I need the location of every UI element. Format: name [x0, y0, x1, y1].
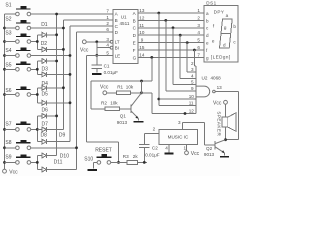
svg-text:a: a [206, 11, 209, 16]
diode D9 [37, 133, 70, 145]
svg-text:U2: U2 [202, 76, 208, 81]
svg-text:[LEDgn]: [LEDgn] [211, 55, 231, 60]
ground (Q1) [134, 121, 144, 123]
svg-text:4: 4 [106, 43, 109, 48]
switch S10 RESET [84, 148, 118, 169]
diode D8 [37, 127, 63, 139]
wire segment c row [138, 26, 204, 29]
svg-text:B: B [133, 18, 136, 23]
switch S6 [5, 87, 38, 97]
svg-text:S10: S10 [84, 156, 93, 162]
wire diode feed vertical [36, 61, 39, 74]
svg-text:C1: C1 [104, 64, 110, 69]
wire pin2 MUSIC IC to C2 [144, 127, 159, 145]
svg-text:3: 3 [106, 37, 109, 42]
diode D3 [37, 59, 56, 73]
junction left bus row S2 [3, 27, 6, 30]
svg-text:1: 1 [184, 146, 187, 151]
wire bus bit1 (pin1 B) [62, 20, 113, 129]
wire bus bit3 (pin6 D) [75, 32, 113, 169]
svg-text:Vcc: Vcc [80, 47, 89, 53]
junction left bus row S4 [3, 54, 6, 57]
svg-text:S9: S9 [5, 155, 11, 161]
svg-text:B: B [115, 18, 118, 23]
svg-text:4: 4 [191, 73, 194, 78]
svg-text:10k: 10k [126, 85, 134, 90]
switch S5 [5, 62, 38, 72]
svg-text:14: 14 [139, 52, 145, 57]
diode D7 [37, 113, 56, 127]
svg-text:RESET: RESET [95, 148, 112, 154]
svg-text:2: 2 [197, 15, 200, 20]
svg-text:e: e [206, 41, 209, 46]
diode D2 [37, 41, 63, 52]
diode D5 [37, 85, 63, 97]
wire pin3 LT [86, 40, 110, 43]
wire Vcc to speaker [225, 104, 227, 117]
svg-text:U1: U1 [121, 15, 127, 20]
svg-text:LT: LT [115, 40, 120, 45]
wire bus bit0 (pin7 A) [55, 13, 58, 156]
svg-text:G: G [133, 55, 137, 60]
svg-text:g: g [206, 55, 209, 60]
resistor R3 2k [119, 154, 148, 164]
svg-text:Vcc: Vcc [100, 85, 109, 91]
wire left Vcc bus [4, 14, 6, 169]
svg-text:9013: 9013 [204, 152, 215, 157]
svg-text:0.01μF: 0.01μF [145, 153, 160, 158]
power terminal Vcc (speaker) [213, 100, 227, 106]
wire diode feed vertical [36, 116, 39, 142]
svg-text:R2: R2 [101, 101, 107, 106]
svg-text:9: 9 [191, 86, 194, 91]
svg-text:SPEAKER: SPEAKER [217, 111, 222, 136]
svg-text:d: d [223, 42, 226, 47]
svg-text:2: 2 [191, 61, 194, 66]
svg-text:R3: R3 [123, 154, 129, 159]
svg-text:Vcc: Vcc [9, 170, 18, 176]
wire bus bit2 (pin2 C) [69, 26, 113, 142]
svg-text:D2: D2 [41, 41, 48, 47]
svg-text:D9: D9 [59, 133, 66, 139]
svg-text:S3: S3 [5, 30, 11, 36]
wire 4511 pin14 to R2 [91, 57, 152, 108]
wire U2 input ladder [195, 66, 197, 114]
svg-text:Q2: Q2 [206, 146, 213, 151]
svg-text:D8: D8 [41, 133, 48, 139]
svg-text:C2: C2 [152, 145, 158, 150]
power terminal Vcc bottom-left [3, 169, 19, 175]
wire segment g row [138, 56, 204, 59]
svg-text:D10: D10 [60, 153, 69, 159]
switch S2 [5, 16, 64, 30]
ground (Q2) [220, 156, 229, 158]
svg-text:S7: S7 [5, 121, 11, 127]
transistor Q2 9013 [204, 140, 226, 157]
svg-text:11: 11 [139, 23, 144, 28]
diode D1 [37, 22, 56, 38]
wire segment a to U2 [157, 13, 196, 106]
svg-text:DS1: DS1 [206, 1, 216, 6]
svg-text:11: 11 [189, 101, 194, 106]
svg-text:2k: 2k [133, 154, 139, 159]
svg-text:D3: D3 [42, 66, 49, 72]
switch S4 [5, 48, 71, 58]
pin bubble LT [110, 40, 113, 43]
resistor R2 10k [91, 101, 130, 111]
svg-text:7: 7 [197, 52, 200, 57]
diode D10 [37, 153, 69, 159]
speaker LS [217, 111, 237, 136]
svg-text:Vcc: Vcc [191, 151, 200, 157]
switch S3 [5, 30, 38, 43]
svg-text:4: 4 [165, 146, 168, 151]
svg-text:6: 6 [197, 45, 200, 50]
wire segment d to U2 [180, 35, 196, 78]
switch S7 [5, 121, 42, 131]
wire segment f to U2 [194, 50, 196, 66]
ground (C1) [92, 73, 102, 75]
svg-text:R1: R1 [117, 85, 123, 90]
svg-text:13: 13 [139, 8, 145, 13]
svg-text:e: e [212, 39, 215, 44]
display DS1 7-segment [204, 6, 238, 62]
power terminal Vcc (4511 LT/BI) [80, 40, 89, 53]
svg-text:b: b [233, 24, 236, 29]
svg-text:S6: S6 [5, 88, 11, 94]
svg-text:3: 3 [191, 67, 194, 72]
svg-text:D11: D11 [54, 160, 63, 166]
svg-text:S2: S2 [5, 16, 11, 22]
capacitor C2 0.01uF [139, 145, 160, 163]
power terminal Vcc (MUSIC IC pin1) [184, 144, 200, 157]
wire speaker to Q2 [224, 127, 227, 141]
resistor R1 10k [107, 85, 143, 95]
wire segment e row [138, 41, 204, 44]
power terminal Vcc (R1) [100, 85, 109, 95]
wire segment b to U2 [166, 20, 196, 91]
wire diode feed vertical [36, 35, 39, 50]
svg-text:9: 9 [141, 38, 144, 43]
svg-text:D6: D6 [42, 108, 49, 114]
junction left bus row S7 [3, 128, 6, 131]
svg-text:4511: 4511 [120, 21, 130, 26]
chip MUSIC IC [159, 129, 198, 144]
junction left bus row S6 [3, 93, 6, 96]
svg-text:13: 13 [217, 85, 223, 90]
wire pins 3-4-5 vertical [95, 42, 98, 57]
junction left bus row S8 [3, 146, 6, 149]
svg-text:12: 12 [189, 109, 195, 114]
svg-text:BI: BI [115, 46, 119, 51]
switch S1 [5, 3, 114, 16]
svg-text:2: 2 [153, 127, 156, 132]
wire diode feed vertical [36, 156, 39, 170]
svg-text:g: g [224, 25, 227, 30]
svg-text:E: E [133, 41, 136, 46]
op-amp U1 4511 BCD decoder [113, 10, 138, 64]
svg-text:12: 12 [139, 15, 145, 20]
svg-text:10: 10 [189, 94, 195, 99]
wire U2 output pin 13 [215, 85, 238, 140]
diode D11 [37, 160, 76, 172]
svg-text:MUSIC IC: MUSIC IC [168, 135, 189, 140]
svg-text:4068: 4068 [211, 76, 222, 81]
svg-text:5: 5 [106, 50, 109, 55]
svg-text:3: 3 [197, 23, 200, 28]
svg-text:S4: S4 [5, 48, 11, 54]
wire segment d row [138, 34, 204, 37]
diode D4 [37, 72, 70, 87]
svg-text:b: b [206, 18, 209, 23]
svg-text:S5: S5 [5, 62, 11, 68]
logic gate U2 4068 NAND [196, 76, 221, 97]
svg-text:S1: S1 [5, 3, 11, 9]
svg-text:10: 10 [139, 30, 145, 35]
svg-text:15: 15 [139, 45, 145, 50]
svg-text:D1: D1 [41, 22, 48, 28]
capacitor C1 0.01uF [92, 55, 119, 74]
svg-text:1: 1 [197, 8, 200, 13]
diode D6 [37, 100, 70, 113]
wire segment e to U2 [187, 43, 196, 73]
svg-text:1: 1 [106, 15, 109, 20]
junction left bus row S9 [3, 161, 6, 164]
wire Q1 collector to U2 pin12 [142, 93, 197, 115]
switch S8 [5, 140, 77, 150]
svg-text:D5: D5 [42, 92, 49, 98]
svg-text:Vcc: Vcc [213, 100, 222, 106]
wire pin4 MUSIC IC to ground [165, 144, 169, 152]
svg-text:7: 7 [106, 9, 109, 14]
wire pin4 BI [97, 47, 111, 49]
junction left bus row S3 [3, 40, 6, 43]
svg-text:5: 5 [197, 38, 200, 43]
svg-text:0.01μF: 0.01μF [104, 70, 119, 75]
svg-text:a: a [226, 13, 229, 18]
svg-text:F: F [133, 48, 136, 53]
junction left bus row S5 [3, 68, 6, 71]
ground (MUSIC IC pin4) [165, 153, 174, 155]
pin bubble BI [110, 46, 113, 49]
wire 4511 pin5 to S10/R3 [87, 55, 120, 163]
transistor Q1 9013 [117, 93, 142, 125]
svg-text:LE: LE [115, 53, 121, 58]
ground (S10) [87, 169, 97, 171]
svg-text:4: 4 [197, 30, 200, 35]
wire segment c to U2 [173, 28, 196, 85]
wire segment a row [138, 12, 204, 15]
svg-text:d: d [206, 33, 209, 38]
wire pin5 LE [87, 54, 113, 56]
svg-text:5: 5 [191, 80, 194, 85]
svg-text:DPY: DPY [214, 10, 225, 15]
svg-text:Q1: Q1 [120, 114, 127, 119]
svg-text:S8: S8 [5, 140, 11, 146]
wire segment f row [138, 49, 204, 52]
svg-text:D7: D7 [42, 122, 49, 128]
switch S9 [5, 155, 38, 165]
wire segment b row [138, 19, 204, 22]
wire pin3 MUSIC IC to Q2 base [178, 120, 215, 145]
svg-text:6: 6 [106, 27, 109, 32]
svg-text:10k: 10k [110, 101, 118, 106]
wire diode feed vertical [36, 88, 39, 103]
svg-text:2: 2 [106, 21, 109, 26]
svg-text:9013: 9013 [117, 120, 128, 125]
svg-text:3: 3 [178, 120, 181, 125]
